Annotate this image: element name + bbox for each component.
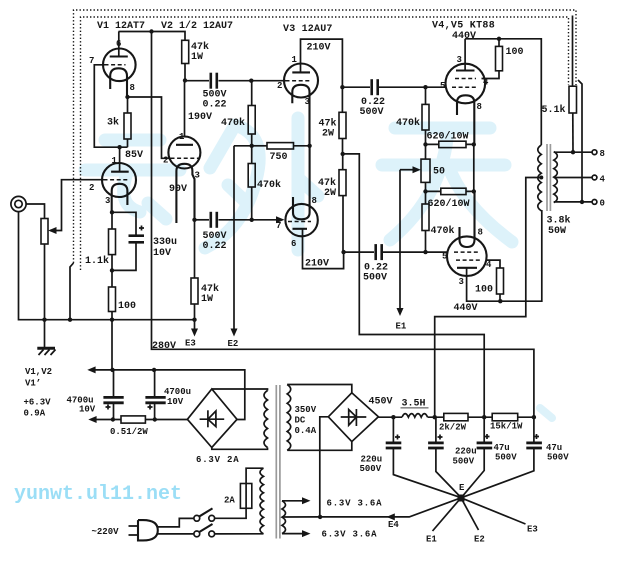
capacitor 4700u/10V no.1: [103, 397, 123, 409]
wire E ray to E3: [461, 498, 526, 524]
svg-text:DC: DC: [295, 416, 306, 426]
svg-text:6.3V 3.6A: 6.3V 3.6A: [327, 499, 383, 509]
4700u 10V value label no.1: [67, 396, 96, 415]
svg-text:2: 2: [89, 183, 94, 193]
wire 220u no.2 leads to E: [436, 417, 461, 497]
wire 50 wiper to E1 with arrow: [397, 166, 421, 316]
svg-text:1W: 1W: [201, 294, 213, 305]
V4 plate: [456, 69, 475, 71]
junction dot 620 row2 right: [472, 189, 476, 193]
svg-text:E: E: [459, 483, 465, 493]
wire E ray to E2: [461, 498, 479, 530]
svg-text:V2 1/2 12AU7: V2 1/2 12AU7: [161, 20, 233, 32]
resistor 5.1k feedback: [569, 86, 577, 113]
wire shield return to tap 0: [578, 80, 582, 202]
V2 cathode arc: [176, 164, 194, 223]
wire 1.1k bottom junction: [111, 255, 113, 287]
T1 HV rating label 350V DC 0.4A: [295, 405, 317, 436]
shield box outer dotted border: [74, 10, 577, 263]
wire 50 pot to 620 row2: [425, 182, 427, 191]
47k 2W value label: [318, 177, 336, 199]
resistor 1.1k: [109, 229, 116, 255]
input jack J1: [11, 196, 26, 211]
mains transformer T1 HV winding: [287, 385, 291, 451]
resistor 2k/2W: [444, 413, 468, 420]
V2 grid (dashed): [171, 157, 199, 159]
tube V3 upper triode envelope: [284, 64, 318, 98]
junction dot KT88 upper grid node: [423, 85, 427, 89]
svg-text:190V: 190V: [188, 112, 212, 123]
svg-text:1: 1: [292, 55, 298, 65]
svg-text:8: 8: [130, 83, 135, 93]
capacitor 220u/500V no.1: [386, 435, 402, 449]
resistor 470k (KT88 lower grid): [422, 204, 429, 231]
junction dot tap0 / shield return: [580, 200, 584, 204]
wire B2 plus to choke: [378, 416, 402, 418]
output transformer secondary winding: [554, 152, 558, 203]
wire V1 pin7 grid to lower plate node: [94, 65, 127, 147]
wire 620 row2 leads: [426, 190, 474, 192]
svg-text:0.22: 0.22: [203, 100, 227, 111]
V1 upper grid (dashed): [105, 64, 126, 66]
svg-text:3.8k: 3.8k: [547, 215, 571, 227]
resistor 47k 1W (V2 cathode): [191, 278, 198, 304]
junction dot V2 plate node 190V: [183, 78, 187, 82]
resistor 470k (upper, V3 grid chain): [248, 106, 255, 135]
junction dot ground bus / shield drain: [68, 318, 72, 322]
svg-text:2k/2W: 2k/2W: [439, 423, 467, 433]
wire 1.1k top lead: [111, 212, 113, 229]
V3 upper cathode arc: [292, 85, 309, 146]
resistor 0.51/2W: [121, 416, 145, 423]
wire rail 15k to 280V riser: [518, 416, 534, 418]
svg-text:750: 750: [270, 152, 288, 163]
wire OPT center tap to 450V: [435, 178, 542, 418]
V4 screen grid (dashed): [455, 78, 476, 80]
4700u 10V value label no.2: [164, 387, 191, 407]
junction dot V3 plate node / C3: [340, 85, 344, 89]
svg-text:2A: 2A: [224, 496, 235, 506]
wire 47k bottom to plate node: [184, 64, 186, 81]
junction dot V2 cathode / C2: [192, 218, 196, 222]
svg-text:8: 8: [600, 149, 605, 159]
V1 lower cathode arc: [112, 184, 128, 212]
junction dot V1 upper cathode / 3k: [125, 95, 129, 99]
watermark: large pale-cyan character 3: [382, 128, 512, 242]
V4 cathode arc: [457, 95, 474, 144]
wire B+ top rail (V1 plate to 47k): [119, 32, 186, 41]
svg-text:2W: 2W: [322, 129, 334, 140]
wire plug to switch 2: [158, 533, 194, 535]
wire +6.3V DC line with arrow: [88, 416, 121, 423]
wire V4 plate to 440V rail: [464, 39, 466, 71]
fuse element wire: [245, 484, 247, 509]
switch S1a: [194, 508, 215, 521]
svg-text:1.1k: 1.1k: [85, 255, 109, 267]
wire shield drain to ground bus: [70, 263, 74, 320]
wire C4 line 210V node to KT88 lower grid: [344, 251, 448, 253]
wire cathode node to 330u: [112, 212, 136, 235]
resistor 750: [267, 143, 294, 149]
junction dot E4 / heater CT / B2 minus: [318, 515, 322, 519]
wire 5.1k to tap 8: [572, 113, 574, 152]
svg-text:440V: 440V: [454, 303, 478, 314]
resistor 470k (lower, chain): [248, 164, 255, 188]
wire cathode column (KT88 upper to rows to KT88 lower): [473, 144, 475, 191]
wire 470k lower to grid node: [425, 231, 427, 253]
svg-text:yunwt.ul11.net: yunwt.ul11.net: [14, 483, 182, 506]
svg-text:3: 3: [105, 196, 110, 206]
junction dot screen resistor / plate line: [498, 299, 502, 303]
wire 100 bottom to plate line: [499, 294, 501, 301]
svg-text:90V: 90V: [169, 184, 187, 195]
svg-text:500V: 500V: [495, 453, 517, 463]
V1 upper plate: [110, 55, 128, 57]
wire E ray to E4 / heater CT with arrow: [320, 498, 461, 521]
svg-text:8: 8: [478, 228, 483, 238]
svg-text:5: 5: [442, 252, 447, 262]
svg-text:1: 1: [179, 132, 185, 142]
svg-text:~220V: ~220V: [92, 527, 120, 537]
wire secondary tap 4: [554, 177, 592, 179]
shield box inner dotted border: [81, 17, 569, 270]
wire 470k to 620 row 1: [425, 130, 427, 144]
mains plug: [129, 520, 158, 540]
tube V4 KT88 upper envelope: [446, 64, 486, 104]
junction dot 750 node: [250, 144, 254, 148]
junction dot KT88 lower grid node: [423, 250, 427, 254]
wire mid node to 450V supply: [343, 154, 485, 417]
V5 plate: [457, 267, 477, 269]
output terminal 0: [592, 200, 597, 205]
wire 750 right lead to V3 lower cathode: [294, 145, 310, 147]
wire plug to switch 1: [157, 518, 194, 527]
junction dot grid node / 470k: [249, 79, 253, 83]
wire V1 upper plate to B+ top rail: [118, 32, 120, 57]
svg-text:3: 3: [459, 277, 464, 287]
wire 280V B+ riser: [152, 32, 534, 418]
wire 6.3V CT tap to E4 node: [282, 516, 320, 518]
resistor 3k: [124, 113, 131, 139]
resistor 620/10W (lower): [441, 188, 466, 194]
wire 0.51 to bridge 1: [145, 419, 187, 421]
junction dot 1.1k/330u bottom: [110, 268, 114, 272]
wire HV winding top to bridge 2: [287, 385, 352, 393]
wire grid node to 470k: [251, 81, 253, 106]
wire C2 to V3 lower grid with arrow: [219, 216, 285, 223]
svg-text:85V: 85V: [125, 150, 143, 161]
bridge rectifier B2 (HV): [328, 393, 378, 442]
wire jack sleeve to ground bus: [19, 212, 21, 320]
V1 upper cathode arc: [110, 68, 127, 97]
svg-text:10V: 10V: [79, 405, 96, 415]
svg-text:15k/1W: 15k/1W: [490, 422, 523, 432]
wire B1 bottom AC to T1 6.3V winding: [212, 448, 268, 450]
wire plate node to 47k 2W upper: [341, 87, 343, 112]
output transformer primary winding: [538, 145, 542, 211]
V1 lower grid (dashed): [104, 179, 130, 181]
wire 47k 2W upper to mid node: [342, 139, 344, 154]
svg-text:500V: 500V: [360, 107, 384, 118]
resistor 620/10W (upper): [439, 141, 466, 147]
wire 470k lower to C2 node: [251, 187, 253, 220]
wire primary bottom to switch 2: [215, 533, 264, 535]
svg-text:47u: 47u: [494, 443, 510, 453]
wire V3 lower plate to 210V node: [303, 229, 344, 269]
wire 4700u no.2 leads: [154, 370, 156, 420]
svg-text:5: 5: [440, 81, 445, 91]
svg-text:210V: 210V: [307, 43, 331, 54]
wire 470k to 750 node: [251, 134, 253, 146]
resistor 100 (V5 screen): [497, 268, 504, 294]
svg-text:220u: 220u: [455, 447, 477, 457]
svg-text:+6.3V: +6.3V: [24, 398, 52, 408]
capacitor 0.22/500V coupling C2: [211, 212, 217, 228]
svg-text:4: 4: [600, 174, 606, 184]
svg-text:500V: 500V: [547, 453, 569, 463]
svg-text:50W: 50W: [548, 226, 566, 237]
svg-text:E2: E2: [228, 339, 239, 349]
wire V4 screen to 100 resistor: [482, 71, 500, 79]
svg-text:7: 7: [276, 221, 281, 231]
watermark: fragment near output transformer: [540, 408, 552, 418]
wire 47k 2W lower to 210V node: [342, 196, 345, 253]
fuse 2A: [240, 484, 251, 509]
svg-text:4: 4: [486, 260, 492, 270]
svg-text:220u: 220u: [361, 455, 383, 465]
svg-text:10V: 10V: [167, 397, 184, 407]
wire 440V rail to OPT primary top: [465, 39, 541, 145]
svg-text:E4: E4: [388, 520, 399, 530]
net +6.3V 0.9A label: [24, 398, 52, 419]
3.5H value label: [401, 399, 429, 410]
wire 47u no.2 leads to E: [463, 417, 534, 497]
wire 47k to ground bus and E3 arrow: [191, 304, 198, 337]
watermark: large pale-cyan character 2: [205, 118, 318, 250]
svg-text:0.9A: 0.9A: [24, 409, 46, 419]
svg-text:500V: 500V: [360, 464, 382, 474]
junction dot OPT center tap: [539, 176, 543, 180]
wire rail 2k to 15k: [468, 416, 492, 418]
junction dot cathode/1.1k/330u top: [110, 210, 114, 214]
junction dot ground bus / V1 cathode chain: [110, 318, 114, 322]
C4 value label 0.22 500V: [363, 263, 388, 284]
junction dot rail / 47u no.1 riser: [482, 415, 486, 419]
svg-text:100: 100: [506, 47, 524, 58]
resistor 47k 1W (V2 plate load): [182, 40, 189, 63]
V5 cathode arc (top): [460, 191, 475, 247]
V3 upper plate: [292, 71, 310, 73]
junction dot ground bus / pot bottom: [42, 318, 46, 322]
wire 3k bottom lead: [127, 139, 129, 147]
junction dot rail / OPT CT riser: [433, 415, 437, 419]
ground symbol: [37, 320, 55, 355]
svg-text:E2: E2: [474, 535, 485, 545]
220u 500V value label no.2: [453, 447, 477, 467]
C2 value label 500V 0.22: [203, 231, 227, 252]
svg-text:500V: 500V: [363, 273, 387, 284]
wire HV winding bottom to bridge 2: [287, 442, 352, 451]
wire primary top to fuse: [246, 468, 263, 483]
wire B1 top AC to T1 6.3V winding: [212, 389, 268, 391]
wire 330u bottom to 1.1k bottom: [112, 242, 136, 270]
V4 control grid (dashed): [452, 86, 478, 88]
wire pot bottom to ground bus: [44, 244, 46, 320]
wire switch 1 to fuse line: [215, 508, 247, 518]
svg-text:V1’: V1’: [25, 379, 41, 389]
capacitor 47u/500V no.1: [477, 434, 493, 448]
junction dot 620 row1 left: [423, 142, 427, 146]
svg-text:E3: E3: [185, 339, 196, 349]
junction dot 0.51 line / cap2: [153, 417, 157, 421]
V3 upper grid (dashed): [286, 80, 311, 82]
svg-text:4700u: 4700u: [164, 387, 191, 397]
wire E2 drop with arrow: [231, 146, 238, 337]
svg-text:330u: 330u: [153, 237, 177, 248]
wire jack tip to volume pot: [26, 204, 44, 219]
wire secondary tap 8: [554, 151, 592, 153]
capacitor 47u/500V no.2: [526, 434, 542, 448]
wire V1 lower plate to 85V node: [119, 147, 121, 172]
wire V2 cathode to 47k 1W: [194, 220, 196, 278]
watermark: large pale-cyan character 1: [85, 140, 180, 219]
wire V3 upper plate to 47k 2W node: [301, 39, 343, 87]
capacitor 4700u/10V no.2: [145, 397, 165, 409]
svg-text:V1 12AT7: V1 12AT7: [97, 21, 145, 32]
svg-text:3: 3: [457, 55, 462, 65]
capacitor 0.22/500V coupling C4: [376, 244, 382, 260]
resistor 470k (KT88 upper grid): [422, 104, 429, 130]
junction dot 440V rail / screen resistor: [497, 37, 501, 41]
47k 1W value label: [201, 283, 219, 305]
resistor 100 (V1 cathode return): [109, 287, 116, 312]
47u 500V value label no.1: [494, 443, 518, 463]
wire B2 minus to heater CT / E4: [320, 417, 329, 517]
wire 3k top lead: [127, 97, 129, 113]
mains transformer T1 6.3V 2A winding: [264, 391, 268, 448]
junction dot 450V node / 220u no.1: [391, 415, 395, 419]
svg-text:280V: 280V: [152, 341, 176, 352]
wire 4700u no.1 leads: [113, 370, 115, 420]
wire V1 cathode node to V2 grid: [128, 97, 169, 158]
svg-text:210V: 210V: [305, 259, 329, 270]
resistor 100 (V4 screen): [496, 46, 503, 70]
junction dot rail / 280V riser: [532, 415, 536, 419]
junction dot heater line / 4700u no.1: [110, 368, 114, 372]
svg-text:440V: 440V: [452, 31, 476, 42]
tube V1 lower triode envelope: [102, 163, 136, 197]
wire V5 plate to OPT primary bottom: [467, 210, 542, 301]
svg-text:500V: 500V: [453, 457, 475, 467]
wire 750 left lead: [252, 145, 267, 147]
output terminal 8: [592, 150, 597, 155]
wire 620 row1 to 50 pot: [425, 144, 427, 159]
svg-text:0: 0: [600, 199, 605, 209]
wire grid node to 470k: [425, 87, 427, 104]
47k 1W value label: [191, 41, 209, 63]
svg-text:V1,V2: V1,V2: [25, 367, 52, 377]
wire 620 row1 leads: [426, 143, 474, 145]
svg-text:47u: 47u: [546, 443, 562, 453]
junction dot 620 row1 right: [472, 142, 476, 146]
svg-text:V3 12AU7: V3 12AU7: [283, 24, 333, 35]
mains transformer T1 6.3V 3.6A winding: [282, 501, 286, 534]
potentiometer VR1 volume: [41, 219, 48, 245]
junction dot heater line / 4700u no.2: [152, 368, 156, 372]
svg-text:3: 3: [305, 97, 310, 107]
tube V5 KT88 lower envelope (inverted): [447, 236, 487, 276]
V1 lower plate: [111, 171, 129, 173]
220u 500V value label no.1: [360, 455, 383, 475]
wire mid node to 47k 2W lower: [342, 154, 344, 170]
potentiometer 50 hum balance: [421, 159, 430, 182]
V2 plate: [176, 144, 193, 146]
wire 100 top to 440V rail: [498, 39, 500, 47]
V5 screen grid (dashed): [456, 259, 481, 261]
svg-text:V4,V5 KT88: V4,V5 KT88: [432, 21, 495, 32]
junction dot 0.51 line / cap1: [111, 417, 115, 421]
330u 10V value label: [153, 237, 177, 259]
tube V1 upper triode envelope: [103, 49, 136, 82]
svg-text:6.3V 3.6A: 6.3V 3.6A: [322, 530, 378, 540]
svg-text:5.1k: 5.1k: [542, 104, 566, 116]
svg-text:6.3V 2A: 6.3V 2A: [196, 455, 239, 465]
wire V5 screen to 100 resistor: [487, 260, 501, 268]
capacitor 220u/500V no.2: [428, 435, 444, 449]
svg-text:3: 3: [195, 171, 200, 181]
svg-text:10V: 10V: [153, 248, 171, 259]
C1 value label 500V 0.22: [203, 90, 227, 111]
svg-text:E1: E1: [426, 535, 437, 545]
svg-text:0.4A: 0.4A: [295, 426, 317, 436]
bridge rectifier B1 (6.3V): [187, 389, 237, 448]
OPT rating label 3.8k 50W: [547, 215, 571, 238]
junction dot C2 line / 470k lower: [250, 218, 254, 222]
node E star point: [458, 495, 465, 502]
output terminal 4: [592, 175, 597, 180]
switch S1b: [194, 524, 215, 537]
svg-text:470k: 470k: [431, 225, 455, 237]
capacitor 330u/10V electrolytic: [129, 226, 145, 243]
tube V2 triode envelope: [168, 137, 200, 169]
svg-text:100: 100: [118, 301, 136, 312]
junction dot 750 right / cathode column: [307, 144, 311, 148]
resistor 47k 2W (lower): [339, 170, 346, 196]
net V1,V2 heater label: [25, 367, 52, 389]
ground bus wire: [20, 319, 195, 321]
wire 6.3V 3.6A bottom tap with arrow: [282, 530, 311, 537]
svg-text:E3: E3: [527, 525, 538, 535]
C3 value label 0.22 500V: [360, 97, 386, 118]
svg-text:350V: 350V: [295, 405, 317, 415]
V5 control grid (dashed): [454, 251, 480, 253]
svg-text:100: 100: [475, 285, 493, 296]
tube V3 lower triode envelope (inverted): [285, 204, 317, 236]
svg-text:0.51/2W: 0.51/2W: [110, 427, 148, 437]
wire V2 plate node down to tube: [184, 80, 186, 136]
svg-text:8: 8: [477, 102, 482, 112]
V3 lower cathode arc (top): [293, 146, 310, 220]
resistor 47k 2W (upper): [339, 112, 346, 138]
wire cathode node to coupling cap C2: [195, 219, 210, 221]
mains transformer T1 220V primary winding: [260, 468, 264, 534]
wire C1 to V3 upper grid: [219, 80, 286, 82]
svg-text:450V: 450V: [369, 397, 393, 408]
svg-text:2W: 2W: [324, 188, 336, 199]
wire feedback top lead into shield corner: [572, 16, 574, 87]
wire 620 row2 to 470k lower: [425, 191, 427, 204]
mains transformer T1 core: [276, 385, 280, 539]
